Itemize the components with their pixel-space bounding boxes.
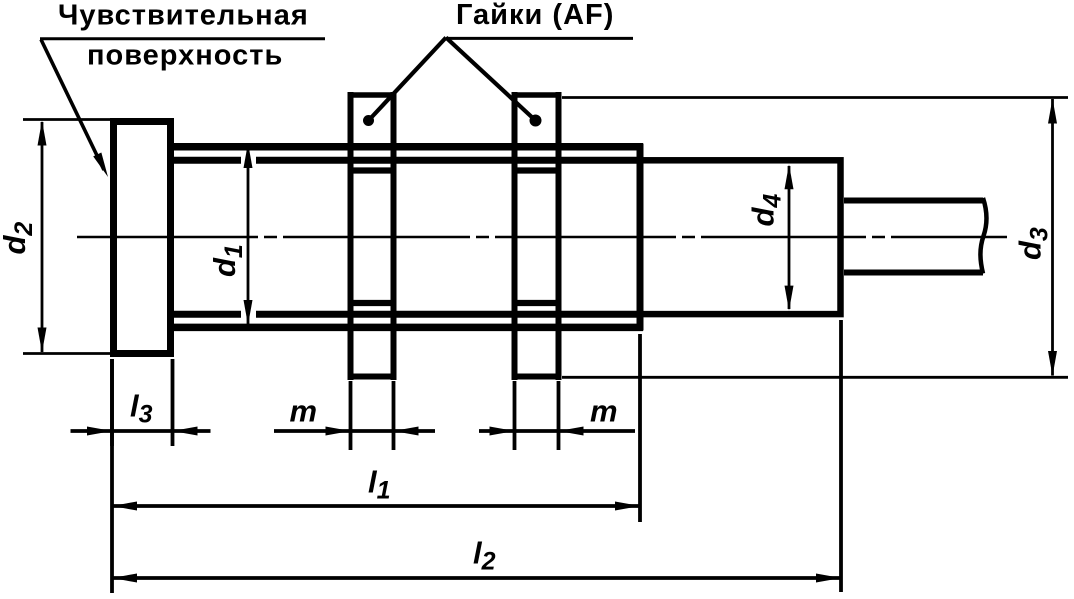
dimension l1 line [113,504,639,508]
d2 arrowhead down [38,328,47,353]
dimension m1 line [274,429,435,433]
main body rectangle [640,160,841,314]
dimension l1 extension line left [110,359,114,593]
d1 arrowhead down [244,300,253,325]
svg-text:Чувствительная: Чувствительная [58,0,309,32]
svg-text:m: m [290,394,318,429]
m1 arrowhead right [326,427,351,436]
dimension d2 extension line bottom [23,352,110,355]
thread crest line top [167,143,643,151]
d1 arrowhead up [244,143,253,168]
thread root line top (gap at d1 arrow) [167,157,643,164]
centerline axis (dash-dot) [77,236,1007,238]
dimension d2 line [41,122,44,352]
leader dot on nut N2 [530,115,542,127]
sensing head cap rectangle [114,122,171,354]
thread end vertical line [637,144,644,331]
dimension d3 extension line top [562,96,1068,99]
dimension d3 extension line bottom [562,376,1068,379]
m2 arrowhead left [559,427,584,436]
nut N1 right edge [391,92,397,380]
d2 arrowhead up [38,121,47,146]
leader line to nut N2 [446,38,536,121]
svg-text:m: m [590,394,618,429]
dimension l2 line [113,576,840,580]
d4 arrowhead down [785,286,794,311]
nut N2 top edge [512,92,562,98]
l1 arrowhead right [615,502,640,511]
d3 arrowhead down [1048,351,1057,376]
nut N2 right edge [556,92,562,380]
nut N2 facet line bottom [518,300,556,306]
nut N1 facet line top [353,167,391,173]
dimension m2 line [479,429,635,433]
l3 arrowhead left (outside right) [173,427,198,436]
leader underline (sensitive surface) [40,37,325,40]
svg-text:поверхность: поверхность [87,40,283,72]
nut N1 bottom edge [348,374,397,380]
leader arrowhead at sensitive face [93,152,112,178]
l1 arrowhead left [112,502,137,511]
nut N2 left edge [512,92,518,380]
dimension l1 extension line right [638,334,642,522]
dimension d3 line [1051,99,1054,376]
dimension l3 line [71,429,211,433]
nut N2 bottom edge [512,374,562,380]
leader dot on nut N1 [363,115,374,126]
m1 arrowhead left [394,427,419,436]
cable bottom line [844,270,983,276]
thread root line bottom (gap at d1 arrow) [167,311,643,318]
l3 arrowhead right (outside left) [87,427,112,436]
l2 arrowhead left [112,574,137,583]
dimension l3 extension line right [171,359,175,446]
m2 arrowhead right [490,427,515,436]
leader line to nut N1 [369,38,447,121]
dimension m1 extension lines [351,381,394,450]
leader underline (nuts) [446,37,633,40]
l2 arrowhead right [816,574,841,583]
dimension l3 extension line left [110,359,114,446]
nut N2 facet line top [518,167,556,173]
dimension d1 line [247,145,250,324]
nut N1 top edge [348,92,397,98]
nut N1 left edge [348,92,354,380]
dimension m2 extension lines [515,381,559,450]
svg-text:Гайки (AF): Гайки (AF) [456,0,614,31]
dimension d4 line [788,166,791,309]
nut N1 facet line bottom [353,300,391,306]
dimension d2 extension line top [23,118,110,121]
d3 arrowhead up [1048,99,1057,124]
leader line to sensitive face [41,40,104,171]
cable top line [844,198,983,204]
thread crest line bottom [167,324,643,332]
dimension l2 extension line right [839,320,843,592]
d4 arrowhead up [785,164,794,189]
cable break curve [980,198,986,274]
